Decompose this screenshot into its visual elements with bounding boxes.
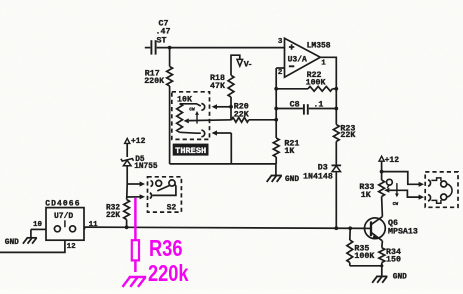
jack contacts [428, 178, 452, 203]
wire U3 output node [320, 57, 338, 124]
ground GND (U7 pin10) [5, 229, 37, 247]
power +12 (right) [379, 156, 399, 180]
resistor R21 [273, 138, 299, 164]
transistor Q6 MPSA13 [365, 217, 418, 241]
pin 11 [85, 221, 99, 229]
panel box jack J [425, 172, 458, 207]
label THRESH [173, 144, 209, 156]
wire R36 top (highlight) [134, 198, 137, 240]
wire arrow to pot top terminal [212, 104, 233, 109]
resistor R34 [379, 241, 401, 266]
wire base [367, 227, 371, 229]
wire node C7/R17 to U3 pin3 [157, 46, 285, 50]
wire arrow to S2 bottom terminal [127, 194, 145, 199]
panel box pot [172, 92, 210, 140]
panel box S2 [148, 177, 182, 212]
wire ground rail [170, 163, 276, 165]
resistor R20 [232, 103, 277, 123]
R33 CW marker [393, 183, 399, 207]
potentiometer 10K THRESH [177, 96, 232, 137]
wire main node rail [85, 225, 367, 230]
label R36 [149, 235, 183, 261]
pot R33 wiper / jack contact [384, 179, 424, 199]
resistor R22 [276, 71, 336, 91]
resistor R32 [106, 197, 130, 227]
IC U7/D CD4066 [45, 200, 84, 241]
capacitor C7 [145, 20, 171, 55]
ground GND (R21) [267, 164, 300, 184]
wire arrow to pot bottom terminal [212, 130, 232, 164]
wire emitter rail [350, 264, 384, 267]
capacitor C8 [276, 101, 336, 115]
wire U3 pin2 node [274, 68, 284, 138]
switch S2 [150, 180, 177, 213]
ground (R36) [123, 277, 147, 287]
resistor R23 [333, 124, 355, 164]
power +12 (left) [125, 137, 146, 157]
resistor R33 [359, 180, 384, 217]
pin 12 [0, 240, 76, 252]
resistor R18 [210, 74, 234, 120]
resistor R35 [347, 228, 374, 265]
op-amp U3/A LM358 [278, 38, 331, 77]
diode D3 1N4148 [303, 163, 341, 228]
wire R33 top to jack tip [380, 170, 424, 187]
pot CW marker [189, 107, 199, 124]
zener diode D5 1N755 [121, 156, 158, 184]
pin 10 [31, 221, 46, 229]
power V- symbol [231, 55, 252, 75]
resistor R36 [132, 240, 139, 272]
wire arrow to S2 top terminal [127, 181, 145, 197]
label 220k [148, 260, 189, 286]
resistor R17 [144, 48, 172, 164]
ground GND (Q6) [372, 266, 407, 283]
